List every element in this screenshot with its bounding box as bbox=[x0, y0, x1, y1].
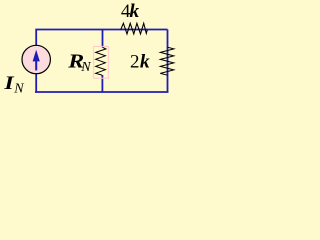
wire: middle branch top stub bbox=[102, 30, 104, 48]
resistor 4k zigzag bbox=[121, 23, 148, 34]
svg-text:I: I bbox=[3, 73, 14, 94]
resistor RN highlight box bbox=[94, 46, 109, 78]
wire: left branch + top rail left segment bbox=[36, 30, 167, 46]
current source IN circle bbox=[22, 45, 50, 73]
svg-text:k: k bbox=[129, 1, 139, 22]
background bbox=[0, 0, 178, 102]
wire: right branch (runs through 2k) bbox=[167, 30, 169, 93]
wire: bottom rail bbox=[35, 91, 169, 93]
current source arrow bbox=[33, 50, 40, 71]
svg-text:N: N bbox=[13, 82, 24, 97]
svg-text:k: k bbox=[140, 52, 150, 73]
wire: middle branch bottom stub bbox=[101, 75, 103, 92]
resistor RN zigzag bbox=[96, 47, 106, 75]
wire: left branch bottom stub bbox=[35, 74, 37, 92]
svg-text:N: N bbox=[80, 60, 91, 75]
resistor 2k zigzag bbox=[160, 47, 174, 75]
svg-text:2: 2 bbox=[130, 52, 140, 73]
